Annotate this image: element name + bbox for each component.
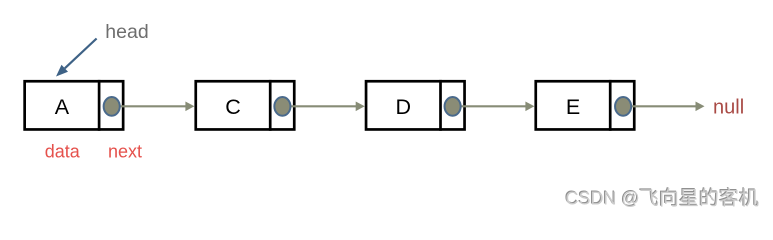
head arrow (pointer to node A): [56, 39, 97, 77]
node D next pointer dot: [445, 97, 461, 116]
wire: arrow D to E: [453, 102, 535, 112]
node E next pointer dot: [615, 97, 631, 116]
svg-text:C: C: [225, 95, 241, 119]
svg-text:head: head: [105, 21, 148, 43]
svg-text:D: D: [396, 95, 412, 119]
wire: arrow C to D: [282, 102, 364, 112]
node E box: [536, 80, 635, 131]
svg-text:data: data: [45, 142, 81, 162]
node C next pointer dot: [274, 97, 290, 116]
node A next pointer dot: [104, 97, 120, 116]
wire: arrow E to null: [623, 102, 704, 112]
wire: arrow A to C: [112, 102, 195, 112]
svg-text:null: null: [713, 97, 744, 119]
node D box: [366, 80, 465, 131]
svg-text:E: E: [566, 95, 580, 119]
node C box: [196, 80, 295, 131]
svg-text:next: next: [108, 142, 142, 162]
svg-text:A: A: [55, 95, 70, 119]
svg-text:CSDN @: CSDN @: [566, 188, 640, 208]
watermark: CSDN @飞向星的客机 (embossed): [565, 187, 759, 208]
node A box: [25, 80, 124, 131]
